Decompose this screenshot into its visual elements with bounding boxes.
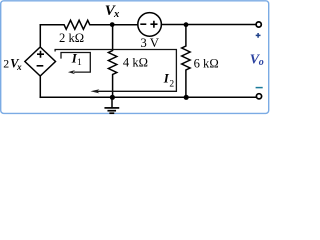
svg-text:4 kΩ: 4 kΩ — [123, 56, 148, 70]
svg-text:2 kΩ: 2 kΩ — [59, 31, 84, 45]
svg-text:6 kΩ: 6 kΩ — [194, 56, 219, 70]
svg-text:2: 2 — [3, 56, 9, 70]
svg-text:x: x — [113, 9, 119, 20]
svg-text:o: o — [259, 57, 264, 68]
svg-text:1: 1 — [77, 58, 82, 68]
svg-text:x: x — [16, 62, 22, 72]
svg-text:2: 2 — [169, 80, 174, 90]
svg-text:3 V: 3 V — [140, 36, 159, 50]
